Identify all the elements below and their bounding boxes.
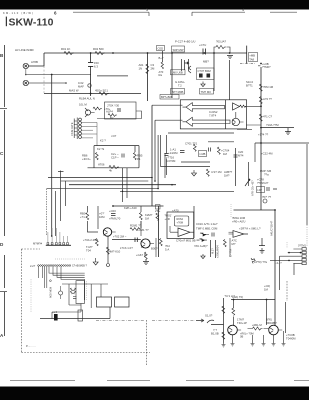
- wire sub V101: [100, 284, 102, 297]
- wire V223: [223, 298, 225, 343]
- svg-text:1M?: 1M?: [224, 173, 230, 177]
- svg-text:1M: 1M: [145, 216, 150, 220]
- capacitor C44: [164, 154, 168, 156]
- wire sub V91: [90, 284, 92, 308]
- svg-text:4?1 C?: 4?1 C?: [263, 115, 272, 119]
- svg-text:A?4 ??: A?4 ??: [263, 97, 272, 101]
- transistor Q72: [269, 325, 279, 335]
- wire Q52 leads: [141, 241, 154, 247]
- connector CN1 header: [46, 244, 71, 246]
- wire H210: [234, 209, 276, 211]
- svg-text:LM0 U0B: LM0 U0B: [172, 71, 183, 75]
- svg-text:?0?' ??: ?0?' ??: [262, 195, 272, 199]
- svg-text:5: 5: [146, 8, 148, 12]
- ground G2: [285, 128, 291, 135]
- wire CN3 feed: [280, 256, 295, 290]
- svg-text:C0D: C0D: [158, 47, 164, 51]
- svg-text:?AV A+B(?: ?AV A+B(?: [194, 244, 208, 248]
- wire V275: [274, 210, 276, 325]
- svg-text:+C7U: +C7U: [199, 43, 206, 47]
- wire sub L1: [69, 304, 81, 313]
- dashed board boundary right: [146, 320, 148, 365]
- svg-text:TMF 0.MB1 C0M: TMF 0.MB1 C0M: [196, 227, 218, 231]
- transistor Q52: [141, 239, 150, 248]
- bottom black bar: [0, 387, 309, 400]
- wire Q51 leads: [104, 230, 116, 236]
- label box BP M0B: [171, 89, 185, 95]
- resistor R10: [161, 62, 163, 69]
- dotted strip V31: [30, 279, 32, 312]
- svg-text:C?0? B4M: C?0? B4M: [198, 69, 212, 73]
- svg-text:T04/0M: T04/0M: [286, 336, 296, 340]
- wire V98: [97, 206, 99, 229]
- wire V60: [58, 171, 64, 222]
- wire sub H318: [40, 307, 110, 319]
- wire bus E: [120, 190, 234, 192]
- wire bus C: [69, 184, 176, 186]
- resistor R2M1: [130, 228, 140, 231]
- wire J1 to rail: [29, 53, 45, 66]
- wire sub V69: [68, 284, 70, 305]
- capacitor C13b: [207, 74, 211, 78]
- switch box SW1: [97, 297, 112, 307]
- left border line: [4, 45, 6, 336]
- wire H299: [231, 299, 275, 301]
- svg-text:+20/L/W04: +20/L/W04: [216, 245, 220, 258]
- wire V215: [215, 240, 217, 258]
- wire V55: [55, 191, 57, 236]
- svg-text:R01 1K: R01 1K: [61, 47, 70, 51]
- wire R2M1 right: [140, 221, 141, 236]
- svg-text:S1,0?: S1,0?: [205, 314, 213, 318]
- svg-text:T40+1P: T40+1P: [237, 321, 247, 325]
- wire V155 feed: [154, 120, 156, 181]
- svg-text:B00?: B00?: [151, 247, 158, 251]
- ground G8: [260, 248, 265, 253]
- wire CN3 leads: [270, 249, 302, 263]
- wire V65: [65, 181, 67, 206]
- component tall box REL1: [76, 281, 84, 304]
- wire V172: [171, 53, 173, 91]
- resistor R33: [109, 165, 119, 168]
- resistor R11: [216, 45, 226, 48]
- wire V x90.6: [90, 53, 92, 96]
- wire Q81 stub: [60, 286, 62, 299]
- svg-text:4.0?2M: 4.0?2M: [166, 159, 176, 163]
- component box REL2: [78, 310, 83, 321]
- sub-network box K1: [105, 102, 137, 119]
- wire Q71 leads: [228, 327, 241, 333]
- diode D62: [197, 239, 207, 242]
- svg-text:P....... .. .: P....... .. .: [26, 344, 36, 348]
- svg-text:??a: ??a: [264, 172, 269, 176]
- transistor Q81: [59, 291, 63, 295]
- node H2-V52 junction: [51, 74, 53, 76]
- resistor R04: [99, 92, 109, 95]
- op-amp block U3 box: [167, 212, 194, 239]
- svg-text:MAF: MAF: [78, 85, 84, 89]
- wire J2 stub: [29, 82, 67, 84]
- resistor R81: [70, 288, 72, 294]
- svg-text:TA8: TA8: [249, 58, 254, 62]
- svg-text:4M? K10: 4M? K10: [109, 250, 121, 254]
- svg-text:+R0+ A0'U: +R0+ A0'U: [232, 219, 245, 223]
- svg-text:B2: B2: [110, 116, 114, 120]
- wire V127 coupler: [126, 168, 128, 198]
- wire tone top: [94, 145, 139, 147]
- node rail junction a: [90, 52, 92, 54]
- wire U3 fb: [170, 226, 178, 232]
- top black bar: [0, 0, 309, 10]
- svg-text:BR04BP: BR04BP: [266, 321, 277, 325]
- wire V233: [233, 300, 235, 326]
- svg-text:LR LINE IN/MF: LR LINE IN/MF: [15, 48, 34, 52]
- label box BP+B0B: [160, 95, 179, 100]
- svg-text:K2 ?: K2 ?: [100, 139, 106, 143]
- svg-text:1-0~ ?: 1-0~ ?: [275, 262, 283, 265]
- svg-text:45Gn 5G1: 45Gn 5G1: [95, 89, 108, 93]
- svg-text:BP?+B0B: BP?+B0B: [161, 95, 173, 99]
- svg-text:T04: T04: [86, 248, 91, 252]
- op-amp U4 region: resistor R71: [251, 258, 255, 263]
- diode D61: [200, 233, 209, 236]
- capacitor C05: [118, 108, 120, 112]
- svg-text:K2 ?k: K2 ?k: [97, 147, 105, 151]
- wire R11 drop: [214, 47, 230, 53]
- left border tick 2: [0, 291, 7, 293]
- wire V248: [248, 162, 250, 186]
- svg-text:M?4: M?4: [238, 153, 244, 157]
- signal arrow: [196, 319, 204, 322]
- svg-text:2'B+: 2'B+: [155, 209, 161, 213]
- svg-text:M?: M?: [232, 242, 236, 246]
- svg-text:??M/C2?: ??M/C2?: [257, 181, 269, 185]
- ground G7: [201, 254, 205, 259]
- resistor R22: [259, 97, 262, 104]
- wire H206: [113, 205, 164, 207]
- svg-text:4.S? 1M: 4.S? 1M: [211, 170, 222, 174]
- transistor Q21: [232, 118, 239, 125]
- svg-text:J70X Y30: J70X Y30: [107, 104, 120, 108]
- resistor R23: [259, 114, 262, 121]
- label box TM M0: [200, 89, 214, 95]
- resistor R02: [95, 51, 105, 54]
- svg-text:C1P ~: C1P ~: [111, 156, 119, 160]
- switch S1: [207, 320, 224, 324]
- diode D81: [52, 310, 58, 321]
- ground G5: [107, 264, 110, 267]
- resistor R01: [64, 51, 74, 54]
- wire V262 stub: [259, 238, 265, 246]
- svg-text:RLB4 AUL N: RLB4 AUL N: [79, 97, 95, 101]
- op-amp block U1 box: [180, 100, 246, 129]
- wire V108b: [107, 236, 109, 263]
- svg-text:5.A: 5.A: [165, 247, 169, 251]
- resistor R31: [95, 153, 98, 160]
- label box SOP MW: [172, 46, 185, 52]
- wire main rail H1: [44, 52, 247, 54]
- svg-text:+1?4 ??: +1?4 ??: [258, 133, 269, 137]
- wire V46 dashed: [46, 189, 48, 237]
- wire stub H75: [97, 75, 128, 77]
- wire V44 faint: [43, 66, 45, 94]
- wire V160 feed: [161, 135, 211, 166]
- wire V255: [254, 143, 256, 162]
- resistor R56: [106, 247, 109, 254]
- svg-text:C01C A/T1 1.0e?: C01C A/T1 1.0e?: [196, 222, 218, 226]
- input jack J2: [23, 80, 28, 85]
- svg-text:+a 2: +a 2: [52, 310, 58, 314]
- capacitor C41: [180, 151, 185, 153]
- resistor R03: [146, 64, 149, 74]
- wire V210: [210, 240, 212, 257]
- svg-text:+C22 4M: +C22 4M: [261, 152, 273, 156]
- svg-text:6.3: 6.3: [94, 65, 98, 69]
- wire ground bus H2: [26, 69, 91, 75]
- resistor R74: [222, 306, 225, 313]
- svg-text:+MB: +MB: [249, 54, 255, 58]
- svg-text:+2R?'A +.0M1 L?: +2R?'A +.0M1 L?: [239, 227, 261, 231]
- wire V166 cap branch: [165, 135, 167, 175]
- wire V158 feed: [157, 135, 159, 189]
- op-amp U1b: [183, 117, 231, 126]
- op-amp U1a: [183, 103, 225, 112]
- label box C 8 L0P: [257, 187, 265, 193]
- capacitor C81: [73, 297, 76, 299]
- svg-text:+P?0) ??a: +P?0) ??a: [254, 260, 267, 264]
- op-amp block U1 partition: [225, 100, 227, 129]
- capacitor C48: [267, 187, 277, 191]
- resistor R32: [133, 153, 136, 160]
- svg-text:P-C27 4+B0 1/U: P-C27 4+B0 1/U: [175, 40, 195, 44]
- wire U4 in: [229, 232, 234, 234]
- svg-text:B?T1: B?T1: [246, 83, 253, 87]
- resistor R06: [93, 107, 102, 110]
- capacitor C52: [135, 238, 137, 243]
- ground G6: [143, 259, 149, 265]
- svg-text:+30 0+: +30 0+: [82, 157, 91, 161]
- sub box R0S4: [174, 216, 189, 226]
- ground G3: [192, 170, 197, 176]
- svg-text:J.07: J.07: [111, 134, 117, 138]
- node rail junction e: [171, 52, 173, 54]
- top ruler segment 3: [270, 11, 297, 13]
- svg-text:?U'1 2.?: ?U'1 2.?: [225, 294, 236, 298]
- svg-text:Ra: Ra: [159, 73, 163, 77]
- wire V51 long down: [51, 75, 53, 237]
- svg-text:L0P: L0P: [257, 188, 262, 192]
- sub-board pin stub: [50, 280, 52, 282]
- svg-text:?0M 1M: ?0M 1M: [263, 85, 274, 89]
- resistor R61: [156, 213, 159, 220]
- svg-text:S0P MW: S0P MW: [173, 48, 184, 52]
- svg-text:+CM1 T?: +CM1 T?: [137, 228, 149, 232]
- svg-text:P1: P1: [137, 157, 141, 161]
- svg-text:AT06: AT06: [98, 163, 105, 167]
- wire V287 seg: [286, 281, 288, 301]
- wire dashdot signal: [96, 320, 145, 322]
- svg-text:?10A ??M: ?10A ??M: [266, 123, 279, 127]
- svg-text:R0S4: R0S4: [177, 217, 184, 221]
- wire V152 feed: [151, 105, 153, 206]
- svg-text:1.MB: 1.MB: [199, 152, 205, 156]
- dashed board boundary left: [20, 249, 22, 353]
- routing grid wires: [38, 267, 84, 301]
- svg-text:2M: 2M: [151, 66, 156, 70]
- resistor R41: [193, 144, 196, 151]
- connector CN5 pin row: [38, 265, 71, 267]
- capacitor C31: [122, 154, 124, 158]
- svg-text:+R0L M: +R0L M: [252, 323, 262, 327]
- svg-text:+?0M: +?0M: [177, 221, 184, 225]
- wire H162: [181, 161, 210, 163]
- resistor R43: [206, 169, 209, 176]
- capacitor C13a: [199, 74, 203, 78]
- capacitor C42: [209, 148, 211, 152]
- label box +MB TA8: [249, 53, 258, 62]
- transistor Q71: [228, 325, 238, 335]
- wire V214: [213, 53, 215, 91]
- wire right diag: [255, 142, 309, 144]
- svg-text:R02 560: R02 560: [93, 47, 104, 51]
- ground row G9: [222, 331, 286, 347]
- svg-text:+A?0: +A?0: [172, 208, 179, 212]
- wire V122 coupler: [122, 168, 124, 202]
- wire bus B: [61, 180, 149, 182]
- left border tick 1: [0, 108, 7, 110]
- resistor R25: [240, 105, 246, 108]
- wire V229: [229, 60, 231, 100]
- svg-text:T.2: T.2: [178, 84, 182, 88]
- svg-text:C0JE ULTE: C0JE ULTE: [70, 122, 74, 136]
- wire V162 stub: [162, 51, 164, 62]
- resistor R51: [86, 213, 89, 220]
- svg-text:C?+B0M0B ?: C?+B0M0B ?: [72, 265, 88, 268]
- node J2 end: [65, 82, 67, 84]
- svg-text:L?1S 1.0?: L?1S 1.0?: [120, 246, 133, 250]
- svg-text:ALP4: ALP4: [106, 110, 113, 114]
- svg-text:C- ??A: C- ??A: [229, 249, 233, 257]
- resistor R55: [144, 252, 147, 259]
- wire R73 stubs: [248, 328, 269, 330]
- svg-text:C?01 ??1: C?01 ??1: [185, 142, 198, 146]
- dashed board boundary bottom: [21, 352, 150, 354]
- svg-text:+PM/L?0: +PM/L?0: [109, 217, 121, 221]
- svg-text:1M: 1M: [223, 152, 228, 156]
- wire bus D: [47, 188, 158, 190]
- svg-text:M.2?: M.2?: [211, 248, 215, 254]
- resistor R21: [259, 84, 262, 91]
- node rail junction b: [112, 52, 114, 54]
- wire V246: [246, 46, 248, 64]
- wire V307 dotted tail: [306, 225, 308, 247]
- svg-text:KM-110 (B/W): KM-110 (B/W): [3, 11, 33, 15]
- wire dashdot H63: [240, 64, 261, 66]
- op-amp U2: [233, 103, 240, 110]
- resistor R52: [139, 213, 142, 220]
- svg-text:0?7M1: 0?7M1: [298, 244, 306, 248]
- wire V230 stub: [229, 238, 231, 257]
- svg-text:1N: 1N: [139, 66, 143, 70]
- svg-text:+?1: +?1: [80, 215, 85, 219]
- resistor R73: [253, 327, 263, 330]
- wire H242: [112, 239, 141, 241]
- wire tone bottom: [88, 167, 140, 169]
- connector CN2 body: [74, 118, 77, 140]
- svg-text:M?M?#: M?M?#: [33, 242, 42, 246]
- connector CN1 pins: [47, 243, 68, 245]
- top ruler segment 1: [73, 12, 149, 16]
- wire V147: [147, 53, 149, 101]
- svg-text:A0B M0M: A0B M0M: [50, 287, 53, 298]
- wire CN2 leads: [82, 122, 98, 145]
- dashed board boundary top: [21, 248, 40, 250]
- svg-text:MAS W: MAS W: [69, 89, 79, 93]
- svg-text:2-2?: 2-2?: [30, 264, 36, 268]
- wire K1 tail: [97, 111, 142, 119]
- resistor R62: [159, 239, 162, 246]
- node rail junction c: [147, 52, 149, 54]
- connector CN2 pins: [79, 118, 82, 138]
- svg-text:R2M1 ??: R2M1 ??: [130, 224, 142, 228]
- node CN3 junctions: [288, 252, 290, 254]
- dotted strip V86: [86, 281, 88, 300]
- svg-text:10M: 10M: [99, 215, 105, 219]
- wire V156 stub: [155, 238, 157, 257]
- op-amp U4: [233, 231, 248, 238]
- dotted stub V231: [230, 204, 232, 218]
- label LM0 U0B: [171, 70, 186, 75]
- capacitor C61: [212, 233, 214, 237]
- wire H127: [261, 127, 294, 129]
- FET Q1 pair: [182, 59, 192, 73]
- resistor R82: [74, 288, 76, 294]
- svg-text:7.8T4: 7.8T4: [209, 114, 217, 118]
- label box C0D: [157, 46, 165, 51]
- trimmer VR1: [263, 199, 267, 203]
- svg-text:??M0?: ??M0?: [262, 65, 271, 69]
- wire U2 out: [237, 106, 261, 129]
- node rail junction d: [213, 52, 215, 54]
- svg-text:+2R: +2R: [165, 217, 170, 221]
- wire V158: [158, 206, 160, 257]
- ground G1: [227, 56, 233, 59]
- label box C 2b: [199, 151, 207, 157]
- wire below U1: [168, 132, 234, 134]
- svg-text:4: 4: [242, 8, 244, 12]
- ground G4: [93, 258, 98, 265]
- wire V87: [88, 206, 99, 232]
- wire Q72 leads: [269, 327, 282, 333]
- svg-text:A41/C?18.4?: A41/C?18.4?: [270, 220, 274, 236]
- bottom rule: [10, 380, 309, 382]
- wire tone V135: [135, 146, 139, 168]
- svg-text:1M: 1M: [264, 287, 269, 291]
- svg-text:B1,0B: B1,0B: [211, 332, 219, 336]
- node dots on buses: [51, 52, 276, 300]
- wire V172b: [171, 91, 173, 98]
- svg-text:MB?: MB?: [203, 60, 209, 64]
- wire V194: [193, 206, 195, 238]
- wire V235: [235, 148, 237, 186]
- wire U1 inputs: [152, 105, 183, 120]
- wire tone V97: [93, 146, 95, 168]
- svg-text:TM? M0: TM? M0: [201, 90, 212, 94]
- svg-text:?01UA?: ?01UA?: [216, 40, 227, 44]
- wire V165: [164, 153, 166, 178]
- capacitor C51: [111, 214, 116, 216]
- wire bus A: [48, 177, 152, 179]
